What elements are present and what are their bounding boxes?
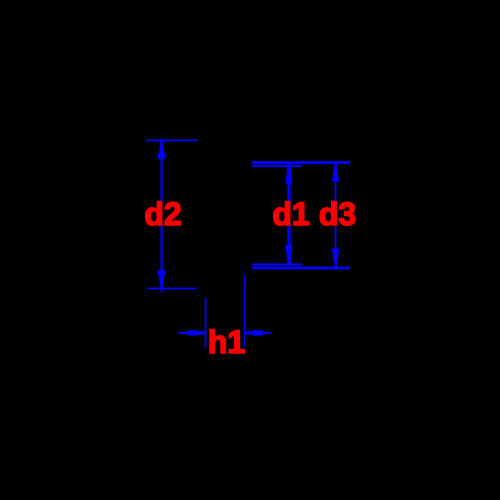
svg-text:d3: d3 [319,196,356,232]
dimension line d3: vertical shaft lower segment [335,226,337,270]
svg-text:d1: d1 [272,196,309,232]
dimension line d1: bottom arrowhead (stepped) [286,245,292,253]
dimension line d2: top arrowhead (stepped) [160,141,163,145]
dimension line d2: bottom arrowhead (stepped) [158,270,165,276]
dimension h1: right arrowhead (stepped, points left) [245,331,253,335]
part edge: bottom inner line (short) [252,263,302,265]
dimension h1: left extension line [205,297,207,347]
part edge: top outer line (long) [252,161,350,164]
svg-text:h1: h1 [208,324,245,360]
dimension line d3: top arrowhead (stepped) [334,164,337,170]
dimension line d2: bottom extension line [147,288,197,290]
dimension line d2: vertical shaft lower segment [161,226,163,292]
dimension line d1: top arrowhead (stepped) [287,164,291,171]
dimension h1: right extension line [244,275,246,346]
part edge: top inner line (short) [252,165,302,167]
dimension line d3: vertical shaft upper segment [335,162,337,203]
dimension h1: left tail segment [178,332,187,334]
svg-text:d2: d2 [144,196,181,232]
dimension line d2: vertical shaft upper segment [161,139,163,202]
dimension h1: left arrowhead (stepped, points right) [187,330,198,335]
dimension h1: right tail segment [263,332,271,334]
dimension line d1: vertical shaft lower segment [287,226,290,265]
dimension line d3: bottom arrowhead (stepped) [332,249,339,253]
dimension line d2: top extension line [147,140,197,142]
part edge: bottom outer line (long) [252,267,350,270]
dimension line d1: vertical shaft upper segment [287,164,290,202]
